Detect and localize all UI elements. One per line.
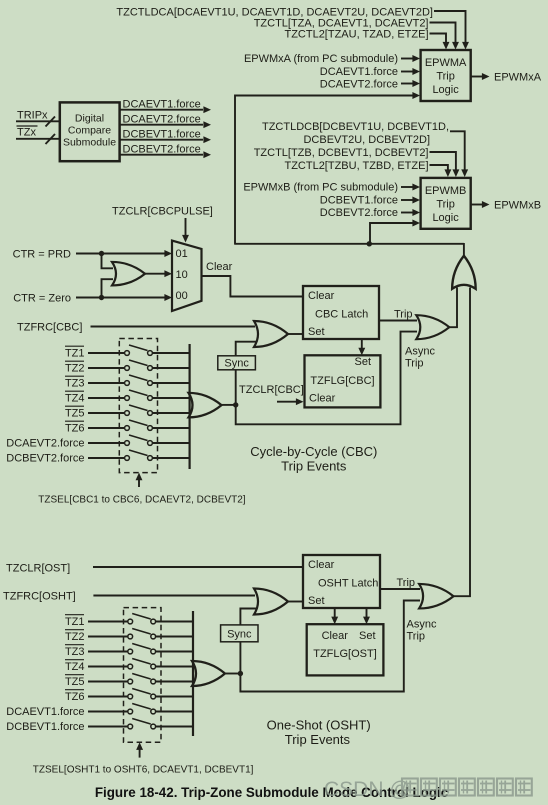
switch CBC row 6 — [125, 426, 130, 431]
wire async OST to big OR right input (long vertical) — [454, 288, 471, 597]
wire OST trip out — [380, 588, 420, 590]
svg-text:DCAEVT1.force: DCAEVT1.force — [123, 99, 201, 111]
wire DCBEVT1.force input — [401, 199, 413, 201]
wire TZ4 to switch — [88, 397, 125, 399]
svg-text:00: 00 — [176, 290, 188, 302]
wire CTR=Zero to mux 00 — [76, 297, 165, 299]
overline TZ2 OST — [65, 629, 84, 631]
or-gate trip combine (2-input, pointing up) — [452, 256, 476, 289]
wire TZ5 to switch OST — [88, 681, 128, 683]
wire TZ6 to switch — [88, 427, 125, 429]
svg-text:Trip Events: Trip Events — [281, 459, 347, 474]
overline TZ3 — [65, 375, 84, 377]
wire switch OST row 7 to OR bus — [156, 711, 193, 713]
svg-text:DCAEVT2.force: DCAEVT2.force — [123, 114, 201, 126]
switch OST row 2 — [128, 634, 133, 639]
wire EPWMxA output — [471, 76, 482, 78]
svg-text:DCAEVT2.force: DCAEVT2.force — [6, 438, 84, 450]
wire CBC trip out — [379, 320, 417, 322]
wire sync to G2 lower input — [236, 342, 256, 356]
svg-text:Set: Set — [308, 595, 325, 607]
svg-text:Trip: Trip — [407, 631, 426, 643]
wire DCBEVT1.force output — [120, 139, 203, 141]
overline TZ4 — [65, 390, 84, 392]
svg-text:Clear: Clear — [322, 630, 349, 642]
wire DCAEVT1.force output — [120, 109, 203, 111]
or-gate OST events (8-input) G7 — [192, 661, 225, 686]
svg-text:DCAEVT2.force: DCAEVT2.force — [320, 79, 398, 91]
svg-text:DCBEVT2.force: DCBEVT2.force — [6, 453, 84, 465]
block Sync OST — [221, 625, 258, 642]
overline TZ1 OST — [65, 614, 84, 616]
arrow TZSEL OST select — [139, 748, 141, 758]
wire DCAEVT2.force to switch — [88, 442, 125, 444]
block EPWMB Trip Logic U2 — [421, 178, 471, 229]
svg-text:CBC Latch: CBC Latch — [315, 309, 368, 321]
wire switch OST row 8 to OR bus — [156, 726, 193, 728]
junction CTR=PRD — [99, 251, 104, 256]
watermark CSDN — [324, 778, 532, 801]
wire switch OST row 1 to OR bus — [156, 621, 193, 623]
switch CBC row 4 — [125, 396, 130, 401]
wire switch row 8 to OR bus — [153, 457, 190, 459]
svg-text:Clear: Clear — [309, 393, 336, 405]
wire TZ3 to switch — [88, 382, 125, 384]
wire CTR=PRD to mux 01 — [76, 253, 165, 255]
svg-text:TRIPx: TRIPx — [17, 110, 48, 122]
svg-text:Clear: Clear — [308, 290, 335, 302]
overline TZ5 — [65, 405, 84, 407]
wire switch row 2 to OR bus — [153, 367, 190, 369]
junction CTR=Zero — [99, 295, 104, 300]
wire or8 OST to sync — [239, 642, 241, 674]
svg-text:DCBEVT1.force: DCBEVT1.force — [123, 129, 201, 141]
svg-text:TZ3: TZ3 — [65, 378, 85, 390]
wire mux clear to CBC latch — [202, 276, 304, 297]
overline TZ2 — [65, 360, 84, 362]
svg-text:DCBEVT2.force: DCBEVT2.force — [123, 144, 201, 156]
wire TRIPx input — [16, 120, 60, 122]
wire EPWMxB output — [471, 204, 482, 206]
wire switch OST row 5 to OR bus — [156, 681, 193, 683]
svg-text:Set: Set — [359, 630, 376, 642]
svg-text:Cycle-by-Cycle (CBC): Cycle-by-Cycle (CBC) — [250, 444, 377, 459]
svg-text:TZSEL[CBC1 to CBC6, DCAEVT2, D: TZSEL[CBC1 to CBC6, DCAEVT2, DCBEVT2] — [38, 495, 246, 506]
svg-text:EPWMxA: EPWMxA — [494, 72, 542, 84]
svg-text:Trip: Trip — [394, 309, 413, 321]
svg-text:TZ5: TZ5 — [65, 408, 85, 420]
bus line CBC OR inputs — [189, 344, 191, 469]
svg-text:Async: Async — [407, 619, 437, 631]
svg-text:DCBEVT1.force: DCBEVT1.force — [6, 721, 84, 733]
wire EPWMxB input — [401, 186, 413, 188]
svg-text:TZ5: TZ5 — [65, 676, 85, 688]
svg-text:DCAEVT1.force: DCAEVT1.force — [320, 66, 398, 78]
wire switch OST row 2 to OR bus — [156, 636, 193, 638]
svg-text:Trip: Trip — [405, 358, 424, 370]
svg-text:TZ2: TZ2 — [65, 363, 85, 375]
wire TZCTL2 B to EPWMB pin — [430, 165, 448, 170]
bus slash TRIPx — [46, 117, 56, 127]
svg-text:EPWMxB: EPWMxB — [494, 200, 541, 212]
switch CBC row 8 — [125, 456, 130, 461]
wire TZCLR[CBC] arrow to flag Clear — [277, 401, 296, 403]
svg-text:TZCLR[OST]: TZCLR[OST] — [6, 562, 70, 574]
svg-text:TZFLG[CBC]: TZFLG[CBC] — [310, 375, 374, 387]
svg-text:Sync: Sync — [224, 358, 249, 370]
wire async OST path — [240, 601, 420, 692]
or-gate CBC set G2 — [254, 321, 288, 347]
or-gate async CBC G3 — [416, 315, 449, 339]
svg-text:One-Shot (OSHT): One-Shot (OSHT) — [267, 718, 371, 733]
svg-text:01: 01 — [176, 248, 188, 260]
wire G2 to latch Set — [288, 333, 303, 335]
wire sync OST to G5 lower input — [240, 609, 256, 625]
overline TZ3 OST — [65, 644, 84, 646]
svg-text:DCAEVT1.force: DCAEVT1.force — [6, 706, 84, 718]
wire async CBC to big OR left input — [449, 288, 457, 328]
block EPWMA Trip Logic U1 — [421, 50, 471, 101]
wire or8 OST output — [226, 673, 241, 675]
wire switch row 4 to OR bus — [153, 397, 190, 399]
wire TZCTL A to EPWMA pin — [430, 23, 456, 43]
switch OST row 1 — [128, 619, 133, 624]
wire CTR=PRD branch to OR — [102, 254, 114, 269]
switch OST row 4 — [128, 664, 133, 669]
svg-text:TZ6: TZ6 — [65, 423, 85, 435]
svg-text:TZCLR[CBC]: TZCLR[CBC] — [239, 384, 304, 396]
switch CBC row 7 — [125, 441, 130, 446]
svg-text:TZ3: TZ3 — [65, 646, 85, 658]
svg-text:OSHT Latch: OSHT Latch — [318, 578, 378, 590]
svg-text:CTR = Zero: CTR = Zero — [13, 292, 71, 304]
wire TZFRC[CBC] to set OR — [91, 326, 256, 328]
dashed box TZSEL OST switches — [124, 608, 162, 743]
switch OST row 3 — [128, 649, 133, 654]
svg-text:Set: Set — [354, 356, 371, 368]
svg-text:DCBEVT2U, DCBEVT2D]: DCBEVT2U, DCBEVT2D] — [303, 134, 430, 146]
wire DCBEVT2.force output — [120, 154, 203, 156]
wire big OR output — [463, 243, 465, 256]
wire or8 CBC output — [222, 404, 236, 406]
svg-text:Sync: Sync — [227, 629, 252, 641]
wire TZ1 to switch — [88, 352, 125, 354]
svg-text:TZ6: TZ6 — [65, 691, 85, 703]
wire TZCTLDCB to EPWMB pin — [450, 131, 465, 169]
svg-text:TZFRC[CBC]: TZFRC[CBC] — [17, 321, 82, 333]
overline TZ4 OST — [65, 659, 84, 661]
svg-text:TZCTL2[TZAU, TZAD, ETZE]: TZCTL2[TZAU, TZAD, ETZE] — [284, 29, 428, 41]
svg-text:10: 10 — [176, 269, 188, 281]
wire TZ2 to switch — [88, 367, 125, 369]
wire TZCTL2 A to EPWMA pin — [430, 34, 447, 43]
svg-text:EPWMxB (from PC submodule): EPWMxB (from PC submodule) — [243, 182, 398, 194]
block CBC Latch — [303, 286, 379, 339]
svg-text:EPWMB: EPWMB — [425, 185, 467, 197]
block Digital Compare Submodule — [60, 102, 120, 161]
bus slash TZx — [46, 134, 56, 144]
svg-text:TZCTLDCB[DCBEVT1U, DCBEVT1D,: TZCTLDCB[DCBEVT1U, DCBEVT1D, — [262, 121, 449, 133]
svg-text:Async: Async — [405, 346, 435, 358]
svg-text:TZ4: TZ4 — [65, 661, 85, 673]
overline TZx — [17, 125, 38, 127]
wire DCBEVT2.force to switch — [88, 457, 125, 459]
wire TZx input — [16, 138, 60, 140]
switch OST row 7 — [128, 709, 133, 714]
svg-text:TZCTL[TZB, DCBEVT1, DCBEVT2]: TZCTL[TZB, DCBEVT1, DCBEVT2] — [254, 147, 429, 159]
svg-text:CSDN @: CSDN @ — [324, 778, 411, 801]
wire TZ1 to switch OST — [88, 621, 128, 623]
svg-text:EPWMA: EPWMA — [425, 57, 467, 69]
svg-text:Clear: Clear — [206, 261, 233, 273]
svg-text:EPWMxA (from PC submodule): EPWMxA (from PC submodule) — [244, 53, 398, 65]
block Sync CBC — [218, 356, 256, 370]
overline TZ1 — [65, 345, 84, 347]
wire TZCTLDCA to EPWMA pin — [434, 11, 466, 42]
svg-text:TZCLR[CBCPULSE]: TZCLR[CBCPULSE] — [112, 206, 213, 218]
svg-text:Digital: Digital — [75, 113, 104, 125]
svg-text:Submodule: Submodule — [63, 137, 116, 149]
wire TZCLR[OST] to OSHT latch Clear — [93, 566, 303, 568]
or-gate async OST G6 — [419, 584, 453, 609]
wire CBC latch to flag set — [361, 339, 363, 348]
wire G5 to OSHT latch Set — [288, 601, 303, 603]
block TZFLG[CBC] — [305, 355, 381, 407]
svg-text:DCBEVT1.force: DCBEVT1.force — [320, 195, 398, 207]
wire CBCPULSE to mux select — [185, 218, 187, 235]
wire switch row 1 to OR bus — [153, 352, 190, 354]
overline TZ6 — [65, 420, 84, 422]
overline TZ5 OST — [65, 674, 84, 676]
switch OST row 8 — [128, 724, 133, 729]
svg-text:Clear: Clear — [308, 559, 335, 571]
overline TZ6 OST — [65, 689, 84, 691]
wire switch row 5 to OR bus — [153, 412, 190, 414]
switch CBC row 2 — [125, 366, 130, 371]
junction OST or8 output — [238, 671, 243, 676]
wire trip net to EPWMB input 4 — [370, 223, 413, 244]
svg-text:TZx: TZx — [17, 127, 36, 139]
wire switch row 3 to OR bus — [153, 382, 190, 384]
wire DCBEVT2.force input — [401, 212, 413, 214]
svg-text:Compare: Compare — [68, 125, 111, 137]
arrow TZSEL CBC select — [138, 478, 140, 487]
svg-text:TZ2: TZ2 — [65, 631, 85, 643]
switch OST row 5 — [128, 679, 133, 684]
wire switch OST row 4 to OR bus — [156, 666, 193, 668]
wire TZ5 to switch — [88, 412, 125, 414]
svg-text:DCBEVT2.force: DCBEVT2.force — [320, 207, 398, 219]
wire OSHT latch to flag clear — [334, 608, 336, 617]
svg-text:Trip Events: Trip Events — [285, 732, 351, 747]
svg-text:Set: Set — [308, 326, 325, 338]
junction trip net — [367, 241, 372, 246]
dashed box TZSEL CBC switches — [119, 339, 157, 473]
wire switch row 6 to OR bus — [153, 427, 190, 429]
or-gate OST set G5 — [254, 589, 288, 615]
wire OSHT latch to flag set — [366, 608, 368, 617]
or-gate CBC events (8-input) G4 — [189, 393, 222, 418]
or-gate CTR combine G1 — [112, 262, 145, 286]
wire TZ6 to switch OST — [88, 696, 128, 698]
wire DCAEVT1.force to switch OST — [88, 711, 128, 713]
svg-text:TZSEL[OSHT1 to OSHT6, DCAEVT1,: TZSEL[OSHT1 to OSHT6, DCAEVT1, DCBEVT1] — [33, 765, 254, 776]
wire EPWMxA input — [401, 58, 413, 60]
bus line OST OR inputs — [192, 611, 194, 736]
wire switch OST row 3 to OR bus — [156, 651, 193, 653]
switch CBC row 5 — [125, 411, 130, 416]
svg-text:TZ1: TZ1 — [65, 348, 85, 360]
wire async CBC path — [236, 332, 417, 425]
wire TZFRC[OSHT] to set OR — [93, 595, 255, 597]
switch CBC row 1 — [125, 351, 130, 356]
wire TZCTL B to EPWMB pin — [430, 152, 456, 170]
wire TZ3 to switch OST — [88, 651, 128, 653]
block OSHT Latch — [303, 555, 380, 608]
mux CBC clear source — [172, 241, 202, 311]
wire G1 output to mux 10 — [145, 273, 165, 275]
wire or8 CBC to sync — [235, 370, 237, 405]
wire TZ4 to switch OST — [88, 666, 128, 668]
block TZFLG[OST] — [307, 624, 384, 675]
svg-text:Logic: Logic — [432, 84, 459, 96]
wire trip net to EPWMA input 4 — [235, 96, 413, 244]
wire switch row 7 to OR bus — [153, 442, 190, 444]
wire CTR=Zero branch to OR — [102, 279, 114, 297]
wire DCAEVT2.force output — [120, 124, 203, 126]
junction CBC or8 output — [233, 402, 238, 407]
svg-text:TZ4: TZ4 — [65, 393, 85, 405]
svg-text:Trip: Trip — [436, 199, 455, 211]
svg-text:TZ1: TZ1 — [65, 616, 85, 628]
wire DCAEVT1.force input — [401, 71, 413, 73]
wire DCAEVT2.force input — [401, 83, 413, 85]
svg-text:Logic: Logic — [432, 212, 459, 224]
wire DCBEVT1.force to switch OST — [88, 726, 128, 728]
svg-text:Trip: Trip — [436, 71, 455, 83]
svg-text:Trip: Trip — [397, 577, 416, 589]
switch CBC row 3 — [125, 381, 130, 386]
switch OST row 6 — [128, 694, 133, 699]
svg-text:CTR = PRD: CTR = PRD — [13, 248, 71, 260]
wire trip bus horizontal — [234, 243, 464, 245]
wire TZ2 to switch OST — [88, 636, 128, 638]
svg-text:TZFRC[OSHT]: TZFRC[OSHT] — [3, 590, 76, 602]
svg-text:TZCTL2[TZBU, TZBD, ETZE]: TZCTL2[TZBU, TZBD, ETZE] — [284, 160, 428, 172]
wire switch OST row 6 to OR bus — [156, 696, 193, 698]
svg-text:TZFLG[OST]: TZFLG[OST] — [313, 648, 377, 660]
